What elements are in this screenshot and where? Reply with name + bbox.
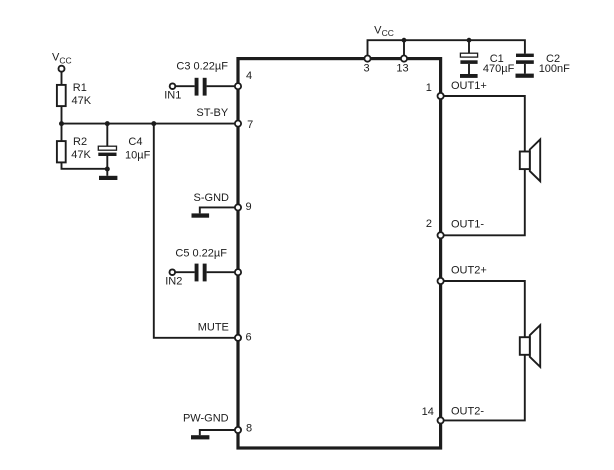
wire (S-GND)	[200, 207, 238, 213]
svg-text:OUT1+: OUT1+	[451, 80, 487, 92]
svg-text:OUT2-: OUT2-	[451, 406, 484, 418]
wire	[61, 106, 63, 124]
svg-text:6: 6	[246, 332, 252, 344]
junction	[59, 121, 64, 126]
pin 9	[235, 204, 241, 210]
svg-text:1: 1	[426, 82, 432, 94]
svg-text:IN2: IN2	[165, 276, 182, 288]
capacitor C2	[516, 54, 534, 74]
svg-text:14: 14	[422, 406, 434, 418]
wire (PW-GND)	[200, 430, 238, 435]
wire (divider rail to pin 7)	[62, 123, 239, 125]
node IN1 terminal	[170, 83, 176, 89]
svg-text:C3 0.22µF: C3 0.22µF	[176, 61, 228, 73]
wire	[175, 85, 194, 87]
svg-text:PW-GND: PW-GND	[183, 413, 229, 425]
wire	[61, 72, 63, 85]
pin 3	[364, 56, 370, 62]
svg-text:IN1: IN1	[164, 90, 181, 102]
svg-text:R1: R1	[73, 82, 87, 94]
wire (VCC rail top)	[368, 40, 525, 58]
pin OUT2+	[438, 278, 444, 284]
speaker LS2	[520, 325, 540, 367]
capacitor C1	[460, 53, 477, 74]
svg-text:C4: C4	[128, 136, 142, 148]
pin IN2	[235, 269, 241, 275]
wire	[62, 162, 108, 168]
svg-text:8: 8	[246, 423, 252, 435]
resistor R1	[57, 85, 66, 106]
ground (PW-GND)	[191, 435, 209, 439]
pin 2	[438, 232, 444, 238]
ground (S-GND)	[192, 213, 210, 217]
wire (pin 13 stem)	[403, 40, 405, 58]
svg-text:2: 2	[426, 218, 432, 230]
capacitor C5	[195, 264, 207, 282]
wire (OUT1 loop)	[441, 96, 525, 235]
node IN2 terminal	[170, 269, 176, 275]
ground (C2)	[516, 74, 534, 78]
wire	[175, 271, 195, 273]
pin 8	[235, 427, 241, 433]
wire	[61, 124, 63, 142]
pin 6	[235, 335, 241, 341]
pin 14	[438, 417, 444, 423]
svg-text:C5 0.22µF: C5 0.22µF	[175, 247, 227, 259]
svg-text:OUT2+: OUT2+	[451, 265, 487, 277]
wire	[207, 85, 238, 87]
svg-text:47K: 47K	[72, 95, 92, 107]
svg-text:R2: R2	[73, 136, 87, 148]
pin 7	[235, 121, 241, 127]
speaker LS1	[520, 139, 540, 181]
resistor R2	[57, 141, 66, 162]
svg-text:100nF: 100nF	[539, 63, 570, 75]
svg-text:CC: CC	[382, 28, 394, 38]
svg-text:MUTE: MUTE	[198, 322, 229, 334]
pin 1	[438, 93, 444, 99]
wire (to MUTE pin 6)	[154, 124, 238, 338]
junction	[467, 38, 472, 43]
wire (OUT2 loop)	[441, 281, 525, 420]
svg-text:4: 4	[246, 70, 252, 82]
junction	[105, 121, 110, 126]
ground (C4)	[99, 176, 117, 180]
svg-text:10µF: 10µF	[125, 150, 151, 162]
svg-text:3: 3	[363, 62, 369, 74]
junction	[151, 121, 156, 126]
svg-text:7: 7	[247, 119, 253, 131]
ground (C1)	[460, 74, 478, 78]
pin 13	[401, 56, 407, 62]
wire	[207, 271, 238, 273]
op-amp U1 (power amplifier IC body)	[238, 59, 441, 448]
svg-text:470µF: 470µF	[483, 63, 515, 75]
pin 4	[235, 83, 241, 89]
svg-text:S-GND: S-GND	[194, 192, 230, 204]
junction	[402, 38, 407, 43]
capacitor C4	[98, 124, 116, 176]
wire (C1 stem)	[468, 40, 470, 53]
node VCC supply terminal left	[59, 66, 65, 72]
svg-text:13: 13	[396, 62, 408, 74]
svg-text:9: 9	[246, 201, 252, 213]
capacitor C3	[195, 78, 207, 96]
svg-text:CC: CC	[59, 55, 71, 65]
svg-text:OUT1-: OUT1-	[451, 219, 484, 231]
svg-text:ST-BY: ST-BY	[196, 107, 228, 119]
svg-text:47K: 47K	[71, 149, 91, 161]
